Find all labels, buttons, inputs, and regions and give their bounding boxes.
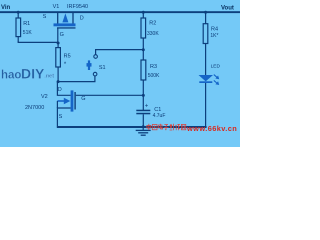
- svg-text:LED: LED: [211, 63, 221, 69]
- char zhi: [170, 124, 174, 130]
- drain stub: [72, 13, 74, 25]
- transistor V2 2N7000 N-MOSFET: [25, 82, 86, 127]
- svg-text:1K*: 1K*: [210, 33, 218, 39]
- svg-text:Vout: Vout: [221, 6, 234, 12]
- svg-text:+: +: [145, 104, 149, 110]
- char wang: [181, 124, 185, 129]
- char zuo: [176, 124, 180, 130]
- resistor R2 330K: [141, 13, 159, 50]
- emission arrows: [214, 75, 217, 78]
- svg-text:330K: 330K: [147, 31, 159, 37]
- arrow pointing up: [62, 13, 68, 22]
- gate bar: [74, 92, 75, 110]
- drain leg: [57, 82, 70, 96]
- svg-text:R2: R2: [149, 20, 156, 26]
- resistor R4 1K*: [203, 13, 218, 76]
- svg-text:S1: S1: [99, 65, 106, 71]
- svg-text:D: D: [80, 16, 84, 22]
- svg-text:51K: 51K: [23, 30, 33, 36]
- wire: node to S1 bottom: [58, 76, 95, 82]
- wire: R1 bottom to V1 gate node: [18, 41, 58, 44]
- node junction dot R5/S1/V2-drain: [57, 80, 60, 83]
- char zi: [164, 125, 169, 130]
- node junction dot gate/R1/R5: [57, 42, 60, 45]
- char zhong: [147, 124, 151, 130]
- ground: [136, 127, 151, 135]
- svg-text:S: S: [43, 14, 47, 20]
- svg-text:2N7000: 2N7000: [25, 105, 44, 111]
- svg-text:R1: R1: [23, 21, 30, 27]
- wire: bottom rail: [57, 126, 207, 128]
- gate wire down: [57, 29, 59, 44]
- node junction dot at rail for R4: [204, 11, 207, 14]
- svg-text:V1: V1: [53, 4, 60, 10]
- wire: top rail Vin to Vout: [0, 11, 240, 13]
- source stub: [57, 13, 59, 25]
- node junction dot at R1 tap: [17, 11, 20, 14]
- resistor R3 500K: [141, 50, 160, 96]
- resistor R5 *: [56, 43, 71, 82]
- svg-text:Vin: Vin: [1, 5, 11, 11]
- svg-text:S: S: [59, 114, 63, 120]
- channel bar: [54, 23, 76, 26]
- svg-text:V2: V2: [41, 94, 48, 100]
- svg-text:C1: C1: [154, 107, 161, 113]
- resistor R1 51K: [16, 13, 32, 43]
- source leg: [57, 108, 70, 126]
- gate bar: [57, 27, 76, 28]
- node junction dot at ground: [142, 125, 145, 128]
- svg-text:D: D: [58, 87, 62, 93]
- transistor V1 IRF9540 P-MOSFET: [43, 4, 89, 43]
- wire: V2 gate to R3/C1 junction: [76, 94, 144, 96]
- channel bar: [71, 90, 74, 111]
- char guo: [152, 125, 157, 130]
- svg-text:R4: R4: [211, 27, 218, 33]
- svg-text:R5: R5: [64, 54, 71, 60]
- svg-text:G: G: [60, 32, 64, 38]
- svg-text:www.66kv.cn: www.66kv.cn: [186, 124, 237, 133]
- char dian: [159, 124, 163, 129]
- switch S1 pushbutton: [87, 55, 106, 76]
- svg-text:4.7uF: 4.7uF: [153, 113, 166, 119]
- wire: S1 top to R2/R3 junction: [96, 50, 144, 55]
- node junction dot gate/R3/C1: [142, 94, 145, 97]
- body arrow: [57, 100, 64, 102]
- svg-text:R3: R3: [150, 64, 157, 70]
- node junction dot at rail for R2: [142, 11, 145, 14]
- capacitor C1 4.7uF: [136, 95, 165, 126]
- svg-text:500K: 500K: [148, 73, 160, 79]
- node junction dot R2/R3/S1: [142, 48, 145, 51]
- LED: [199, 63, 221, 126]
- svg-text:IRF9540: IRF9540: [67, 4, 88, 10]
- svg-text:G: G: [81, 96, 85, 102]
- watermark 66kv red text (stylized CJK glyphs drawn as strokes): [147, 124, 186, 130]
